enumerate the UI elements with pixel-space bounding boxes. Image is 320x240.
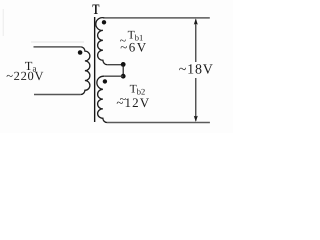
arrowhead down xyxy=(194,116,198,122)
dimension arrow ~18V, shaft xyxy=(195,20,197,121)
wire: secondary top lead xyxy=(104,17,210,19)
wire: primary top lead xyxy=(34,46,81,48)
wire: centre-tap lower lead xyxy=(104,75,123,77)
wire: centre-tap upper lead xyxy=(107,64,123,66)
polarity dot, Tb1 xyxy=(102,20,106,24)
arrowhead up xyxy=(194,18,198,24)
white mask behind ~18V xyxy=(178,62,213,78)
polarity dot, primary xyxy=(78,50,83,55)
node: centre-tap junction lower dot xyxy=(121,74,126,79)
primary winding of transformer T (Ta) xyxy=(81,47,90,95)
svg-text:~: ~ xyxy=(120,92,127,106)
secondary winding Tb2 xyxy=(97,76,107,122)
core xyxy=(94,17,96,122)
faint ghost of top primary wire xyxy=(31,41,84,43)
svg-text:~18V: ~18V xyxy=(179,63,214,78)
svg-text:~: ~ xyxy=(120,34,127,48)
node: centre-tap junction upper dot xyxy=(121,62,126,67)
secondary winding Tb1 xyxy=(96,18,107,65)
wire: secondary bottom lead xyxy=(107,122,210,124)
wire: primary bottom lead xyxy=(34,94,81,96)
polarity dot, Tb2 xyxy=(103,79,107,83)
svg-text:~220V: ~220V xyxy=(6,69,44,83)
wire: centre-tap vertical link xyxy=(122,65,124,77)
faint page-edge artifact line xyxy=(2,9,4,36)
svg-text:T: T xyxy=(92,2,99,18)
